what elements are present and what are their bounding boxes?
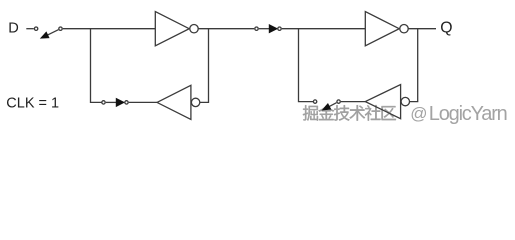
inverter U4 input bubble <box>401 97 409 105</box>
wire S4 to inverter U4 <box>341 101 365 103</box>
switch S1 arm (open) <box>48 30 59 35</box>
switch S3 left contact <box>102 101 105 104</box>
watermark char ju (掘) <box>303 105 318 121</box>
watermark char qu (区) <box>382 106 396 120</box>
inverter U1 output bubble <box>190 25 198 33</box>
wire U2 to Q <box>408 28 436 30</box>
switch S1 arm arrowhead <box>41 32 50 38</box>
wire S3 to inverter U3 <box>129 101 157 103</box>
wire node A vertical (master input feedback tap) <box>91 29 102 103</box>
inverter U2 output bubble <box>400 25 408 33</box>
inverter U2 <box>365 12 399 46</box>
watermark char ji (技) <box>334 105 350 121</box>
switch S4 left contact <box>313 100 316 103</box>
wire U1 to switch S2 <box>198 28 254 30</box>
svg-text:CLK = 1: CLK = 1 <box>6 95 59 111</box>
inverter U1 <box>155 12 189 46</box>
watermark char shu (术) <box>350 105 366 120</box>
inverter U3 input bubble <box>191 98 199 106</box>
switch S3 right contact <box>125 101 128 104</box>
inverter U3 (feedback, points left) <box>157 85 191 119</box>
svg-text:@: @ <box>410 104 427 123</box>
switch S2 wiper arrowhead <box>269 25 277 33</box>
switch S2 right contact <box>278 27 281 30</box>
switch S1 left contact <box>34 27 37 30</box>
switch S1 right contact <box>59 27 62 30</box>
switch S4 right contact <box>337 100 340 103</box>
switch S2 left contact <box>255 27 258 30</box>
watermark char jin (金) <box>318 105 334 120</box>
svg-text:LogicYarn: LogicYarn <box>429 103 507 125</box>
inverter U4 (feedback, points left) <box>365 85 400 119</box>
wire D to switch S1 <box>26 28 34 30</box>
wire S2 to inverter U2 <box>282 28 366 30</box>
wire S1 to inverter U1 <box>63 28 156 30</box>
switch S3 wiper line (closed) <box>106 101 117 103</box>
switch S3 wiper arrowhead <box>116 98 124 106</box>
wire node Q vertical (slave output feedback tap) <box>410 29 418 102</box>
switch S4 arm (open) <box>329 103 336 107</box>
switch S2 wiper line (closed) <box>259 28 270 30</box>
wire node B vertical (master output feedback tap) <box>200 29 209 103</box>
watermark char she (社) <box>365 105 381 121</box>
svg-text:D: D <box>8 20 19 36</box>
switch S4 arm arrowhead <box>322 104 331 111</box>
svg-text:Q: Q <box>440 19 452 36</box>
wire node C vertical (slave input feedback tap) <box>299 29 314 102</box>
